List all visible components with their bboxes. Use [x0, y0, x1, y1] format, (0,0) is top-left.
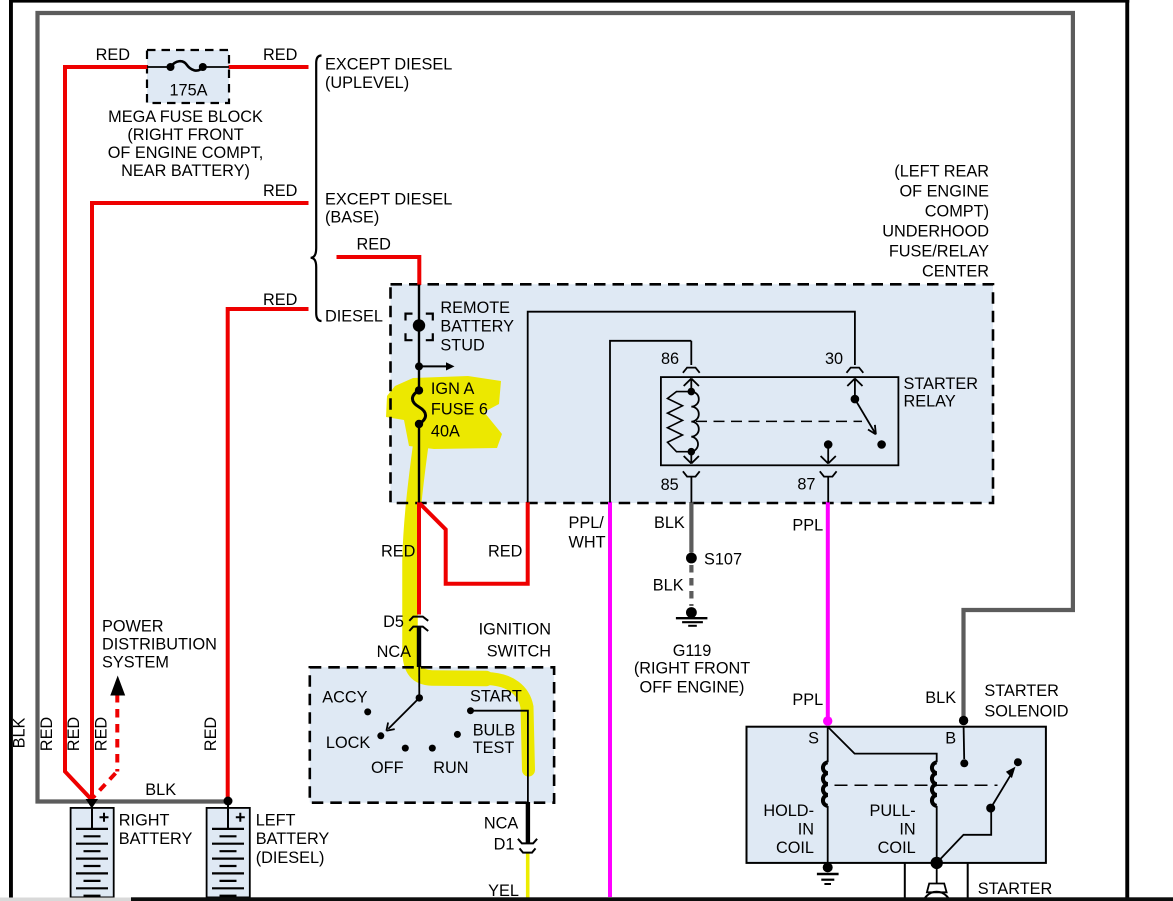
wire 86 feed horizontal from PPL/WHT	[610, 341, 691, 503]
svg-text:STARTER: STARTER	[978, 880, 1052, 898]
svg-text:ACCY: ACCY	[322, 689, 367, 707]
svg-text:(UPLEVEL): (UPLEVEL)	[325, 74, 409, 92]
svg-text:(RIGHT FRONT: (RIGHT FRONT	[634, 660, 750, 678]
svg-text:IN: IN	[899, 821, 915, 839]
svg-text:MEGA FUSE BLOCK: MEGA FUSE BLOCK	[108, 108, 263, 126]
starter solenoid box	[747, 727, 1046, 863]
wire from box top through remote battery stud to fuse 6	[418, 285, 420, 391]
fuse F6 IGN A 40A element	[415, 386, 423, 394]
page border black frame	[9, 0, 1129, 3]
remote battery stud terminal dot	[413, 319, 425, 331]
svg-text:(LEFT REAR: (LEFT REAR	[894, 163, 989, 181]
solenoid contact disc dot	[1014, 758, 1022, 766]
svg-text:S107: S107	[704, 551, 742, 569]
svg-text:REMOTE: REMOTE	[440, 299, 510, 317]
svg-text:BLK: BLK	[653, 577, 684, 595]
svg-text:EXCEPT DIESEL: EXCEPT DIESEL	[325, 191, 452, 209]
svg-text:40A: 40A	[431, 422, 460, 440]
svg-text:SWITCH: SWITCH	[487, 643, 551, 661]
svg-text:RED: RED	[263, 182, 297, 200]
svg-text:OFF ENGINE): OFF ENGINE)	[640, 679, 745, 697]
wire B terminal to fixed contact	[963, 727, 966, 759]
svg-text:RED: RED	[263, 291, 297, 309]
ignition switch box	[310, 667, 554, 802]
ignition switch pivot and arm pointing at LOCK	[416, 694, 423, 701]
highlighter stroke along fuse wire down to ignition switch	[410, 443, 486, 679]
svg-text:D5: D5	[383, 613, 404, 631]
svg-text:D1: D1	[494, 836, 515, 854]
svg-text:FUSE/RELAY: FUSE/RELAY	[889, 243, 989, 261]
svg-text:COMPT): COMPT)	[925, 203, 989, 221]
connector D5	[409, 617, 428, 621]
svg-text:STUD: STUD	[440, 336, 484, 354]
svg-text:BATTERY: BATTERY	[256, 830, 330, 848]
svg-text:FUSE 6: FUSE 6	[431, 401, 488, 419]
svg-text:PPL: PPL	[792, 691, 823, 709]
wire RED dashed to power distribution system	[115, 694, 119, 772]
left battery box	[207, 808, 250, 898]
svg-text:IGN A: IGN A	[431, 380, 475, 398]
pin 87 arrow down	[821, 445, 836, 464]
wire PPL/WHT from relay coil 86 feed going off-page	[608, 502, 612, 897]
fuse 175A element inside mega fuse block	[147, 66, 171, 68]
solenoid S terminal	[823, 716, 832, 725]
svg-text:RUN: RUN	[433, 759, 468, 777]
HIGHLIGHTS	[386, 376, 529, 770]
svg-text:(RIGHT FRONT: (RIGHT FRONT	[127, 126, 243, 144]
right battery box	[71, 808, 114, 898]
svg-text:86: 86	[661, 350, 679, 368]
svg-text:TEST: TEST	[473, 739, 515, 757]
hold-in coil winding	[827, 727, 829, 763]
svg-text:LOCK: LOCK	[326, 734, 370, 752]
pin 85 arrow out of coil	[684, 452, 699, 464]
wire YEL below connector D1 off-page	[526, 853, 530, 899]
wire RED mega fuse to except diesel (uplevel)	[229, 65, 309, 69]
wire RED diesel to left battery	[228, 309, 309, 800]
left battery cell stack	[227, 805, 229, 829]
svg-text:OF ENGINE COMPT,: OF ENGINE COMPT,	[108, 144, 264, 162]
underhood fuse/relay center box	[391, 284, 994, 503]
svg-text:(DIESEL): (DIESEL)	[256, 849, 325, 867]
svg-text:IN: IN	[798, 821, 814, 839]
bottom crop strip light	[0, 898, 131, 901]
left battery terminal junction	[224, 797, 233, 806]
wire BLK battery ground loop (left/top/right)	[38, 13, 1073, 802]
wire from START contact down to D1	[471, 711, 528, 803]
svg-text:WHT: WHT	[569, 534, 606, 552]
wire RED battery feed to mega fuse	[65, 67, 148, 799]
svg-text:BATTERY: BATTERY	[119, 830, 193, 848]
wire pin 85 stub to box edge	[690, 477, 692, 503]
starter motor M1	[936, 869, 938, 884]
svg-text:RIGHT: RIGHT	[119, 811, 170, 829]
svg-text:NEAR BATTERY): NEAR BATTERY)	[121, 162, 250, 180]
pin 86 arrow into coil	[684, 379, 699, 392]
pull-in coil winding	[932, 762, 937, 806]
svg-text:RED: RED	[96, 46, 130, 64]
wire PPL relay pin 87 to solenoid S terminal	[826, 502, 830, 720]
connector D1	[518, 839, 537, 844]
wire pin 87 stub to box edge	[827, 477, 829, 503]
wire 30 feed from fuse 6	[528, 312, 855, 503]
wire RED brace feed into fuse/relay center	[337, 257, 420, 285]
pin 30 arrow to switch pivot	[847, 379, 862, 400]
connector at pin 86	[683, 368, 700, 373]
svg-text:RED: RED	[357, 236, 391, 254]
right battery cell stack	[91, 809, 93, 829]
junction node with feed arrow	[415, 362, 423, 370]
svg-text:HOLD-: HOLD-	[763, 802, 814, 820]
svg-text:COIL: COIL	[776, 839, 814, 857]
svg-text:BLK: BLK	[654, 514, 685, 532]
svg-text:RED: RED	[263, 46, 297, 64]
svg-text:POWER: POWER	[102, 618, 164, 636]
relay mechanical link dashed line	[696, 420, 862, 422]
svg-text:SYSTEM: SYSTEM	[102, 654, 169, 672]
wire S to pull-in coil	[828, 727, 937, 763]
ground under hold-in coil	[823, 862, 833, 872]
svg-text:RED: RED	[488, 543, 522, 561]
svg-text:85: 85	[661, 476, 679, 494]
splice S107	[686, 553, 697, 564]
svg-text:OF ENGINE: OF ENGINE	[899, 183, 989, 201]
remote battery stud bracket	[406, 314, 433, 341]
svg-text:RED: RED	[381, 543, 415, 561]
svg-text:LEFT: LEFT	[256, 811, 296, 829]
ignition switch box dashed border	[310, 667, 554, 802]
svg-text:RED: RED	[38, 717, 56, 751]
ground G119	[686, 607, 697, 618]
connector at pin 85	[683, 471, 700, 476]
svg-text:(BASE): (BASE)	[325, 209, 379, 227]
svg-text:BLK: BLK	[145, 781, 176, 799]
wire to ignition switch pivot	[418, 667, 420, 698]
underhood fuse/relay center box dashed border	[391, 284, 994, 503]
svg-text:NCA: NCA	[484, 815, 519, 833]
relay coil between 86 and 85	[688, 388, 696, 396]
svg-text:BLK: BLK	[925, 689, 956, 707]
wire NCA connector D5 to ignition switch	[417, 627, 421, 667]
wire BLK dashed S107 to ground G119	[689, 565, 693, 606]
svg-text:DIESEL: DIESEL	[325, 308, 383, 326]
svg-text:RELAY: RELAY	[904, 392, 956, 410]
svg-text:EXCEPT DIESEL: EXCEPT DIESEL	[325, 56, 452, 74]
svg-text:OFF: OFF	[371, 759, 404, 777]
svg-text:RED: RED	[65, 717, 83, 751]
right battery plus sign	[100, 813, 109, 822]
svg-text:PPL/: PPL/	[569, 514, 605, 532]
svg-text:NCA: NCA	[377, 643, 412, 661]
solenoid mechanical link dashed line	[835, 784, 998, 786]
svg-text:RED: RED	[202, 717, 220, 751]
svg-text:UNDERHOOD: UNDERHOOD	[882, 223, 989, 241]
svg-text:B: B	[945, 729, 956, 747]
mega fuse block F1 box	[147, 50, 229, 103]
svg-text:G119: G119	[673, 642, 712, 660]
relay switch contact at pin 87	[877, 440, 886, 449]
wire RED except diesel (base)	[92, 203, 309, 799]
svg-text:STARTER: STARTER	[904, 375, 978, 393]
wire BLK relay pin 85 to splice S107	[689, 502, 693, 553]
svg-text:30: 30	[825, 350, 843, 368]
wire NCA ignition switch to connector D1	[526, 802, 530, 843]
wire RED fuse 6 output branch to relay pin 30	[420, 502, 528, 584]
solenoid B terminal	[959, 716, 968, 725]
brace selecting diesel/non-diesel feeds	[311, 56, 322, 322]
wire pin 86 stub	[690, 341, 692, 365]
svg-text:87: 87	[797, 476, 815, 494]
svg-text:BULB: BULB	[473, 721, 516, 739]
connector at pin 30	[847, 368, 864, 373]
highlighter blob over IGN A FUSE 6 40A	[386, 376, 502, 449]
solenoid switch arm	[986, 804, 995, 813]
svg-text:CENTER: CENTER	[922, 263, 989, 281]
junction node under pull-in coil	[931, 857, 943, 869]
left battery plus sign	[236, 813, 245, 822]
svg-text:DISTRIBUTION: DISTRIBUTION	[102, 636, 217, 654]
arrow to power distribution system	[110, 676, 125, 696]
svg-text:RED: RED	[93, 717, 111, 751]
svg-text:START: START	[470, 687, 522, 705]
svg-text:IGNITION: IGNITION	[479, 621, 551, 639]
svg-text:175A: 175A	[169, 82, 207, 100]
bottom crop bar dark	[131, 897, 1173, 901]
connector at pin 87	[820, 471, 837, 476]
wire RED fuse 6 output down to connector D5	[417, 502, 421, 615]
svg-text:STARTER: STARTER	[984, 682, 1058, 700]
relay switch arm from pin 30	[851, 395, 860, 404]
ignition switch position contacts	[364, 708, 371, 715]
relay K1 starter relay outline	[661, 377, 899, 465]
junction arrow at right battery positive post	[86, 799, 98, 809]
svg-text:BLK: BLK	[11, 717, 29, 748]
starter motor housing lines	[905, 863, 968, 898]
svg-text:COIL: COIL	[878, 839, 916, 857]
svg-text:S: S	[808, 729, 819, 747]
svg-text:PULL-: PULL-	[870, 802, 916, 820]
svg-text:SOLENOID: SOLENOID	[984, 702, 1068, 720]
svg-text:BATTERY: BATTERY	[440, 318, 514, 336]
svg-text:PPL: PPL	[792, 517, 823, 535]
